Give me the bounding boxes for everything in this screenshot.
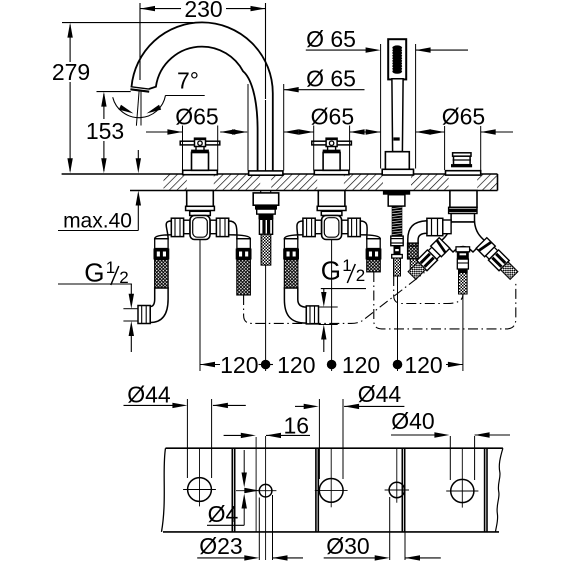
svg-text:Ø40: Ø40: [391, 408, 434, 434]
svg-text:Ø 65: Ø 65: [306, 66, 356, 92]
svg-text:G: G: [84, 258, 104, 288]
svg-text:Ø30: Ø30: [326, 533, 369, 559]
svg-text:1: 1: [342, 256, 351, 275]
svg-text:153: 153: [86, 118, 124, 144]
svg-text:120: 120: [277, 352, 315, 378]
svg-text:120: 120: [220, 352, 258, 378]
svg-text:120: 120: [404, 352, 442, 378]
svg-text:1: 1: [106, 258, 115, 277]
svg-text:Ø44: Ø44: [127, 382, 171, 408]
svg-text:120: 120: [342, 352, 380, 378]
svg-text:Ø44: Ø44: [358, 381, 402, 407]
svg-text:Ø23: Ø23: [199, 533, 242, 559]
svg-text:230: 230: [184, 0, 222, 22]
svg-text:279: 279: [52, 59, 90, 85]
svg-text:7°: 7°: [177, 68, 199, 94]
svg-text:Ø65: Ø65: [311, 104, 354, 130]
svg-text:max.40: max.40: [63, 210, 132, 233]
svg-text:2: 2: [356, 266, 365, 285]
svg-text:Ø 65: Ø 65: [306, 26, 356, 52]
svg-text:Ø4: Ø4: [208, 501, 239, 527]
svg-text:Ø65: Ø65: [442, 104, 485, 130]
svg-text:G: G: [321, 256, 341, 286]
svg-text:Ø65: Ø65: [175, 104, 218, 130]
svg-text:16: 16: [284, 412, 310, 438]
